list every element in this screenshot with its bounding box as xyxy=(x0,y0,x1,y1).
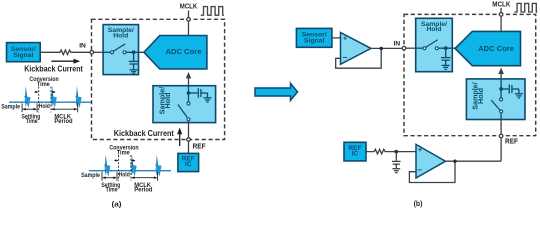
svg-text:Signal: Signal xyxy=(13,52,34,59)
svg-text:Kickback Current: Kickback Current xyxy=(24,64,83,74)
svg-text:−: − xyxy=(343,53,348,62)
svg-text:REF: REF xyxy=(193,143,206,150)
svg-text:Time: Time xyxy=(37,80,51,88)
svg-text:Period: Period xyxy=(54,118,72,125)
svg-text:IN: IN xyxy=(79,43,86,50)
svg-text:Signal: Signal xyxy=(304,38,325,45)
svg-text:ADC Core: ADC Core xyxy=(478,44,514,53)
svg-text:Sample: Sample xyxy=(1,104,20,111)
svg-text:IC: IC xyxy=(185,161,192,168)
svg-text:+: + xyxy=(418,145,423,154)
svg-text:−: − xyxy=(417,165,422,174)
svg-text:(a): (a) xyxy=(111,200,121,209)
svg-text:Hold: Hold xyxy=(113,32,128,39)
svg-text:Kickback Current: Kickback Current xyxy=(114,129,175,138)
svg-text:IN: IN xyxy=(394,40,401,47)
svg-text:Hold: Hold xyxy=(163,93,172,109)
svg-text:MCLK: MCLK xyxy=(492,1,510,8)
svg-text:IC: IC xyxy=(352,151,359,158)
svg-text:(b): (b) xyxy=(414,198,423,207)
svg-text:Hold: Hold xyxy=(39,104,50,111)
svg-text:Hold: Hold xyxy=(476,88,485,104)
svg-text:MCLK: MCLK xyxy=(180,3,198,11)
svg-text:REF: REF xyxy=(505,138,518,145)
svg-text:ADC Core: ADC Core xyxy=(166,47,202,56)
svg-text:Time: Time xyxy=(26,119,39,126)
svg-text:Hold: Hold xyxy=(426,26,441,33)
svg-text:+: + xyxy=(343,34,348,43)
